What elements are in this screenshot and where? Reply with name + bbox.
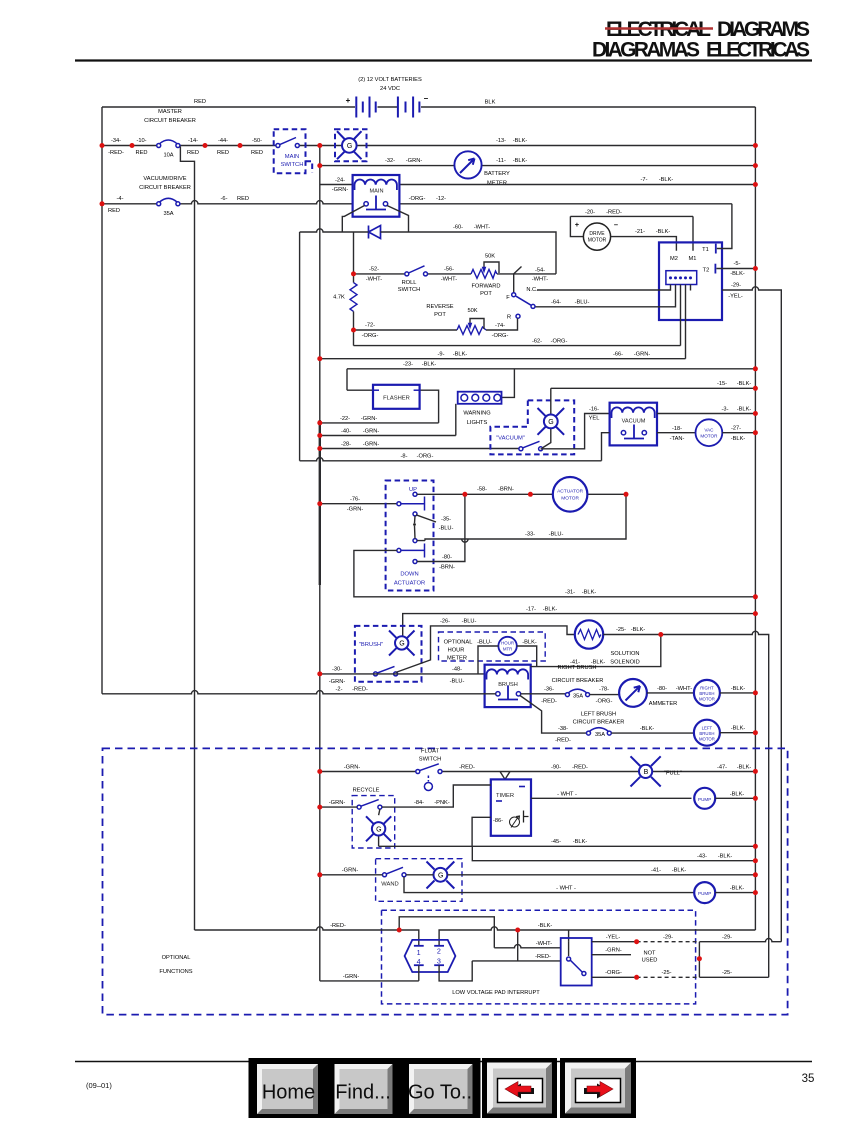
wire T1 feed from -12- [717,204,732,249]
svg-text:POT: POT [480,291,492,297]
svg-text:-38-: -38- [558,726,568,732]
wire right bracket [699,939,781,978]
svg-text:-BLK-: -BLK- [659,177,674,183]
svg-text:PUMP: PUMP [698,797,711,802]
svg-text:-13-: -13- [496,138,506,144]
wire -29- YEL from controller [722,287,781,942]
svg-text:(2) 12 VOLT BATTERIES: (2) 12 VOLT BATTERIES [358,77,422,83]
svg-text:-14-: -14- [188,138,198,144]
svg-text:-BLK-: -BLK- [737,407,752,413]
svg-text:-RED-: -RED- [459,764,475,770]
svg-text:-36-: -36- [544,687,554,693]
timer A3 [491,772,531,836]
svg-text:-9-: -9- [438,352,445,358]
svg-text:-BLK-: -BLK- [737,381,752,387]
svg-text:-BLK-: -BLK- [422,362,437,368]
roll switch S2 [398,266,428,293]
svg-text:-43-: -43- [697,854,707,860]
svg-text:FLASHER: FLASHER [383,396,410,402]
svg-text:-60-: -60- [453,225,463,231]
svg-text:-54-: -54- [535,268,545,274]
wire pin3 link [439,961,472,981]
svg-text:-62-: -62- [532,339,542,345]
svg-text:CIRCUIT BREAKER: CIRCUIT BREAKER [573,720,625,726]
vacuum switch dashed box [490,400,574,454]
svg-text:METER: METER [487,181,507,187]
potentiometer forward 50K [471,254,501,298]
circuit breaker CB2 35A [157,198,180,217]
svg-text:"VACUUM": "VACUUM" [496,436,525,442]
indicator light B1 FULL [631,756,682,786]
svg-text:-BLK-: -BLK- [631,627,646,633]
svg-text:-6-: -6- [221,196,228,202]
svg-text:RED: RED [108,208,120,214]
svg-text:-BLU-: -BLU- [575,300,590,306]
wire -GRN- not used [592,954,631,956]
svg-text:Home: Home [262,1082,315,1104]
svg-text:ELECTRICAS: ELECTRICAS [706,39,810,62]
battery B2 [398,97,420,118]
svg-text:ACTUATOR: ACTUATOR [557,489,583,495]
svg-text:-BLK-: -BLK- [737,764,752,770]
junction dots: master/vac breaker rows [100,143,323,206]
wire -33- loop [417,494,626,542]
wire -30-/-48- row [320,673,485,675]
svg-text:-RED-: -RED- [555,738,571,744]
wire -21- motor to M2 [611,237,677,251]
svg-text:-32-: -32- [385,158,395,164]
svg-text:-BLK-: -BLK- [656,229,671,235]
svg-text:-BLK-: -BLK- [672,868,687,874]
junction dots: actuator row [462,492,628,497]
svg-text:-25-: -25- [616,627,626,633]
svg-text:-29-: -29- [722,935,732,941]
svg-text:4: 4 [417,957,421,966]
svg-text:LIGHTS: LIGHTS [467,420,488,426]
svg-text:-29-: -29- [663,935,673,941]
svg-text:Find...: Find... [335,1082,391,1104]
svg-text:-BLK-: -BLK- [730,271,745,277]
svg-text:-ORG-: -ORG- [605,970,622,976]
wire T2 to bus -5- [716,268,755,270]
svg-text:SOLUTION: SOLUTION [610,651,639,657]
svg-text:-84-: -84- [414,800,424,806]
wire -WHT- pump2 row [404,877,694,893]
wire -45- row [379,817,756,846]
svg-text:-BLK-: -BLK- [573,839,588,845]
wire -31- loop from down coil [354,550,756,596]
svg-text:- WHT -: - WHT - [556,885,576,891]
svg-text:3: 3 [437,957,441,966]
svg-text:MOTOR: MOTOR [699,697,715,702]
svg-text:-BLU-: -BLU- [477,640,492,646]
svg-text:-GRN-: -GRN- [332,187,349,193]
svg-text:-RED-: -RED- [535,954,551,960]
wire float row [320,771,756,773]
wire -RED- row to switch [472,930,561,961]
svg-text:-TAN-: -TAN- [670,436,685,442]
svg-text:35A: 35A [573,694,583,700]
indicator light G1 (horn) [335,129,367,161]
wire -ORG- row [592,976,637,978]
svg-text:-72-: -72- [365,323,375,329]
indicator light G5 wand [427,862,455,889]
svg-text:-20-: -20- [585,210,595,216]
svg-text:-BLK-: -BLK- [522,640,537,646]
wire -17- row [403,614,756,637]
svg-text:-41-: -41- [651,868,661,874]
svg-text:-GRN-: -GRN- [363,429,380,435]
svg-text:MAIN: MAIN [370,189,384,195]
svg-text:-50-: -50- [252,138,262,144]
svg-text:-64-: -64- [551,300,561,306]
pump P1 [694,788,715,809]
wire -40- row [320,435,456,437]
svg-text:-RED-: -RED- [606,210,622,216]
svg-text:RED: RED [187,150,199,156]
wire -52- row [354,274,557,293]
drive motor M2 [583,223,610,250]
button Home [249,1058,327,1118]
svg-text:LEFT: LEFT [702,725,713,730]
svg-text:USED: USED [642,958,658,964]
svg-text:-2-: -2- [336,687,343,693]
svg-text:MTR: MTR [503,647,513,652]
svg-text:-BLK-: -BLK- [731,726,746,732]
wire -43- row [472,846,755,860]
svg-text:-86-: -86- [493,818,503,824]
wire -20- drive motor feed [570,216,693,250]
svg-text:YEL: YEL [589,416,600,422]
svg-text:-3-: -3- [722,407,729,413]
svg-text:-WHT-: -WHT- [532,277,549,283]
svg-text:-52-: -52- [369,267,379,273]
wire -25- solenoid to right [603,631,769,977]
svg-text:-25-: -25- [722,970,732,976]
svg-text:-40-: -40- [341,429,351,435]
svg-text:LOW VOLTAGE PAD INTERRUPT: LOW VOLTAGE PAD INTERRUPT [452,990,540,996]
LVPI dashed box [382,910,696,1004]
svg-text:HOUR: HOUR [448,648,465,654]
svg-text:MASTER: MASTER [158,109,182,115]
svg-text:SWITCH: SWITCH [281,162,304,168]
svg-text:HOUR: HOUR [501,641,514,646]
actuator motor M4 [553,477,588,512]
svg-text:DOWN: DOWN [400,572,418,578]
wire pin2 row to bus -BLK- [439,927,755,945]
svg-text:RIGHT BRUSH: RIGHT BRUSH [557,665,596,671]
svg-text:-GRN-: -GRN- [342,868,359,874]
svg-text:POT: POT [434,312,446,318]
svg-text:-RED-: -RED- [352,687,368,693]
vac motor M3 [696,419,723,446]
potentiometer reverse 50K [426,304,486,334]
svg-text:35A: 35A [595,732,605,738]
svg-text:-BLK-: -BLK- [453,352,468,358]
button back arrow [482,1058,557,1118]
svg-text:RED: RED [251,150,263,156]
svg-text:-28-: -28- [341,442,351,448]
float switch S3 [416,749,442,791]
svg-text:-RED-: -RED- [330,923,346,929]
svg-text:-25-: -25- [661,970,671,976]
svg-text:-BLK-: -BLK- [731,686,746,692]
resistor R1 4.7K [353,232,355,283]
svg-text:G: G [376,827,381,834]
svg-text:FUNCTIONS: FUNCTIONS [159,969,192,975]
svg-text:-BLK-: -BLK- [640,726,655,732]
svg-text:MOTOR: MOTOR [561,496,579,502]
wire -2- row [102,691,496,694]
F/R selector contacts [506,287,538,321]
wire -RED- row into LVPI [195,927,419,945]
indicator light G2 vacuum [538,388,565,448]
svg-text:M1: M1 [689,256,697,262]
warning lights [456,369,515,436]
svg-text:TIMER: TIMER [496,793,514,799]
wire x299 box edge [299,232,301,461]
svg-text:-GRN-: -GRN- [329,800,346,806]
svg-text:R: R [507,315,511,321]
svg-text:-78-: -78- [599,687,609,693]
wire -23- row [347,369,755,390]
svg-text:-18-: -18- [672,426,682,432]
svg-text:-24-: -24- [335,178,345,184]
svg-text:-ORG-: -ORG- [409,196,426,202]
svg-text:-BLK-: -BLK- [543,607,558,613]
svg-text:-12-: -12- [436,196,446,202]
svg-text:-WHT-: -WHT- [474,225,491,231]
wire -18- TAN to vac motor [657,432,696,434]
svg-text:+: + [346,96,351,105]
wire -WHT- pump1 row [531,797,692,799]
wire -76- row [320,503,399,505]
svg-text:-RED-: -RED- [108,150,124,156]
right brush motor M7 [694,680,720,706]
svg-text:CIRCUIT BREAKER: CIRCUIT BREAKER [139,185,191,191]
svg-text:4.7K: 4.7K [333,295,345,301]
indicator light G4 recycle [366,809,391,846]
svg-text:-BLK-: -BLK- [582,590,597,596]
svg-text:-PNK-: -PNK- [434,800,450,806]
svg-text:+: + [575,220,580,229]
svg-text:-WHT-: -WHT- [441,277,458,283]
diode CR1 [369,226,381,239]
svg-text:REVERSE: REVERSE [426,304,453,310]
svg-text:35A: 35A [163,211,173,217]
wire -58- row [417,493,626,495]
wire -YEL- row [592,941,637,943]
wire N.C. row into controller [537,285,671,291]
solution solenoid L1 [575,620,640,665]
svg-text:AMMETER: AMMETER [649,701,677,707]
wire -24-/-7- coil row [320,184,756,186]
svg-text:-16-: -16- [589,407,599,413]
svg-text:-YEL-: -YEL- [728,294,743,300]
svg-text:-ORG-: -ORG- [492,333,509,339]
svg-text:-BLK-: -BLK- [730,791,745,797]
optional hour meter dashed box [439,632,546,662]
svg-text:FORWARD: FORWARD [471,284,500,290]
svg-text:-ORG-: -ORG- [362,333,379,339]
svg-text:T1: T1 [702,247,709,253]
svg-text:-BLU-: -BLU- [439,526,454,532]
svg-text:SWITCH: SWITCH [419,757,441,763]
button forward arrow [560,1058,636,1118]
svg-text:RED: RED [217,150,229,156]
wand switch dashed box [376,859,462,902]
svg-text:Go To..: Go To.. [408,1082,472,1104]
svg-text:RED: RED [194,99,206,105]
left brush motor M8 [694,720,720,746]
wire branch to x195 vertical [180,147,194,931]
svg-text:B: B [644,769,649,776]
svg-text:–: – [614,220,618,229]
svg-text:-BLK-: -BLK- [718,854,733,860]
svg-text:-29-: -29- [731,283,741,289]
svg-text:WAND: WAND [381,881,399,887]
wire pin downs [681,285,691,359]
svg-text:-74-: -74- [495,323,505,329]
svg-text:-31-: -31- [565,590,575,596]
svg-text:F: F [506,295,510,301]
flasher A2 [347,385,439,423]
battery meter M1 [454,151,510,186]
actuator switch dashed box [386,481,436,591]
svg-text:-80-: -80- [442,555,452,561]
svg-text:RECYCLE: RECYCLE [353,788,380,794]
wire vac breaker row -6-/-12- [102,201,732,204]
svg-text:2: 2 [437,947,441,956]
battery B1 [356,97,375,118]
wire -27- to bus [722,432,755,434]
svg-text:MOTOR: MOTOR [700,434,718,439]
svg-text:-WHT-: -WHT- [676,686,693,692]
svg-text:MOTOR: MOTOR [588,238,607,244]
wire -16- YEL [541,414,610,449]
svg-text:OPTIONAL: OPTIONAL [444,640,473,646]
svg-text:-BLK-: -BLK- [731,436,746,442]
svg-text:-YEL-: -YEL- [606,935,621,941]
wire -36- contact to breaker [521,693,566,695]
main switch S1 [274,129,313,173]
svg-text:FLOAT: FLOAT [421,749,439,755]
wire -9-/-66- row [320,358,686,360]
svg-text:-BRN-: -BRN- [439,565,455,571]
svg-text:-90-: -90- [551,764,561,770]
svg-text:-66-: -66- [613,352,623,358]
svg-text:-10-: -10- [136,138,146,144]
circuit breaker CB1 10A [157,140,180,159]
wire -15- row [551,387,756,389]
svg-text:-ORG-: -ORG- [417,454,434,460]
svg-text:G: G [548,419,553,426]
svg-text:"FULL": "FULL" [664,771,682,777]
wire reverse row -72-/-74- [354,318,518,330]
svg-text:M2: M2 [670,256,678,262]
wire x320 vertical [319,146,321,981]
optional functions dashed box [103,748,788,1014]
svg-text:PUMP: PUMP [698,891,711,896]
svg-text:BATTERY: BATTERY [484,171,510,177]
svg-text:-26-: -26- [440,619,450,625]
footer buttons [249,1058,637,1118]
wire -8- row [300,458,602,461]
svg-text:-17-: -17- [526,607,536,613]
svg-text:LEFT BRUSH: LEFT BRUSH [581,712,616,718]
junction dots: left rail x320 [317,420,322,506]
svg-text:METER: METER [447,656,467,662]
hour meter M5 [478,637,537,674]
wire -28- row [320,448,519,450]
svg-text:VACUUM/DRIVE: VACUUM/DRIVE [143,176,186,182]
svg-text:-48-: -48- [452,667,462,673]
wire recycle row -GRN-/-84-PNK [320,785,491,807]
svg-text:-GRN-: -GRN- [343,974,360,980]
wire -62- row [354,345,681,347]
svg-text:-GRN-: -GRN- [605,948,622,954]
svg-text:-WHT-: -WHT- [366,277,383,283]
svg-text:-11-: -11- [496,158,506,164]
svg-text:-22-: -22- [340,416,350,422]
wire -GRN- bottom row [320,965,419,981]
connector J1 [405,940,456,972]
svg-text:BLK: BLK [485,100,496,106]
svg-text:-GRN-: -GRN- [363,442,380,448]
svg-text:-7-: -7- [641,177,648,183]
svg-text:-WHT-: -WHT- [536,941,553,947]
circuit breaker CB3 35A [565,689,589,699]
svg-text:-76-: -76- [350,497,360,503]
svg-text:RED: RED [135,150,147,156]
wire -64- row to pin [533,285,676,307]
svg-text:G: G [347,143,352,150]
wire -38- drop [520,696,587,734]
svg-text:-8-: -8- [401,454,408,460]
brush switch dashed box [355,626,422,682]
svg-text:-BLK-: -BLK- [730,885,745,891]
svg-text:-GRN-: -GRN- [361,416,378,422]
circuit breaker CB4 35A [587,728,612,738]
wire -WHT- row [494,945,560,948]
svg-text:VACUUM: VACUUM [622,419,646,425]
button Go To.. [401,1058,481,1118]
wire -22- row [320,422,439,424]
svg-text:24 VDC: 24 VDC [380,86,400,92]
svg-text:-GRN-: -GRN- [329,679,346,685]
svg-text:CIRCUIT BREAKER: CIRCUIT BREAKER [552,678,604,684]
svg-text:SOLENOID: SOLENOID [610,660,639,666]
svg-text:-GRN-: -GRN- [406,158,423,164]
junction dots: right bus lower [317,594,758,895]
ammeter M6 [619,679,677,707]
wire -26- from brush switch [396,626,575,673]
svg-text:(09–01): (09–01) [86,1081,112,1090]
svg-text:-15-: -15- [717,381,727,387]
svg-text:10A: 10A [163,153,173,159]
svg-text:G: G [399,641,404,648]
svg-text:-BLU-: -BLU- [462,619,477,625]
wire meter row -32-/-11- [320,165,756,167]
svg-text:-BLK-: -BLK- [513,158,528,164]
wire bridge over connector [399,917,494,948]
wire -41- coil to solenoid row [531,635,661,667]
junction dots: LVPI [397,928,702,980]
svg-text:ACTUATOR: ACTUATOR [394,581,425,587]
recycle switch dashed box [352,788,395,849]
svg-text:-BRN-: -BRN- [498,487,514,493]
svg-text:- WHT -: - WHT - [557,791,577,797]
